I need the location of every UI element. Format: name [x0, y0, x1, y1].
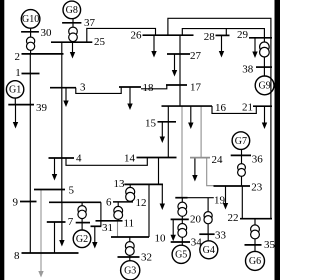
wire 23-22 [241, 186, 243, 219]
label bus 16 [215, 102, 227, 114]
load arrow bus 8 gray (line 5-8) [38, 190, 43, 278]
svg-text:12: 12 [136, 197, 147, 209]
svg-text:37: 37 [84, 17, 96, 29]
svg-text:G8: G8 [66, 5, 78, 16]
label bus 13 [114, 178, 126, 190]
label bus 7 [68, 216, 74, 228]
load arrow bus 20 [171, 219, 176, 241]
svg-text:17: 17 [190, 82, 202, 94]
wire chain 19-20-34-G5 [181, 198, 183, 246]
label bus 24 [212, 154, 224, 166]
bus 2 [22, 53, 64, 55]
transformer 12-11 [114, 206, 123, 219]
load arrow bus 29 [252, 38, 257, 58]
load arrow bus 13 [160, 184, 165, 210]
svg-text:5: 5 [69, 185, 75, 197]
load arrow bus 4 [52, 158, 57, 181]
label bus 30 [41, 27, 53, 39]
svg-text:21: 21 [242, 102, 253, 114]
bus 9 [20, 201, 37, 203]
bus 36 [231, 154, 251, 156]
bus 26 [143, 34, 194, 36]
generator G6 [246, 251, 265, 270]
generator G1 [6, 81, 23, 98]
label bus 8 [14, 250, 20, 262]
label bus 32 [141, 252, 152, 264]
label bus 5 [69, 185, 75, 197]
label bus 36 [252, 153, 263, 165]
transformer 29-38 [260, 42, 270, 57]
generator G7 [232, 132, 250, 150]
bus 7 left segment [47, 221, 66, 223]
svg-text:23: 23 [251, 182, 262, 194]
bus 11 [96, 220, 123, 222]
load arrow bus 15 [160, 122, 165, 143]
svg-text:9: 9 [13, 197, 19, 209]
svg-text:20: 20 [190, 214, 202, 226]
bus 15 [158, 121, 177, 123]
load arrow bus 25 [70, 42, 75, 58]
wire chain 12-11 [117, 202, 119, 221]
bus 21 [253, 105, 272, 107]
load arrow bus 26 [151, 35, 156, 57]
wire 14-13 [158, 158, 160, 185]
bus 38 [256, 66, 272, 68]
transformer 20-34 [178, 224, 187, 238]
transformer 36-23 [238, 164, 246, 177]
svg-text:G4: G4 [203, 245, 215, 256]
wire link 3-18 [76, 87, 121, 93]
wire right vertical 29-38-21-22 [270, 38, 272, 219]
bus 31 [91, 225, 102, 227]
wire link 18-17 [141, 85, 167, 89]
svg-text:34: 34 [191, 237, 203, 249]
svg-text:32: 32 [141, 252, 152, 264]
load arrow bus 24 [192, 158, 197, 182]
bus 6 [49, 201, 101, 203]
wire G10 to bus 30 and transformer chain to bus 2 [30, 28, 32, 54]
wire link 4-14 [66, 158, 147, 166]
label bus 29 [237, 29, 249, 41]
wire chain 19-33 [207, 198, 209, 235]
generator G5 [172, 245, 190, 263]
svg-text:26: 26 [131, 30, 143, 42]
label bus 20 [190, 214, 202, 226]
wire main vertical 25-2-3-4-5-6 [61, 42, 63, 202]
bus 4 [49, 157, 75, 159]
svg-text:27: 27 [190, 50, 202, 62]
load arrow bus 3 [63, 88, 68, 107]
label bus 4 [76, 153, 82, 165]
svg-text:7: 7 [68, 216, 74, 228]
load arrow bus 21 [262, 106, 267, 129]
bus 1 [22, 73, 40, 75]
bus 29 [249, 37, 272, 39]
bus 37 [62, 22, 81, 24]
wire 11-10 gray [117, 221, 119, 237]
transformer 37-25 [69, 27, 78, 42]
wire 6-7 [61, 202, 63, 222]
svg-text:22: 22 [228, 212, 239, 224]
bus 10 [111, 236, 149, 238]
label bus 28 [204, 31, 216, 43]
svg-text:15: 15 [145, 118, 157, 130]
svg-text:G2: G2 [76, 234, 88, 245]
bus 5 [34, 189, 65, 191]
label bus 27 [190, 50, 202, 62]
svg-text:G1: G1 [9, 85, 21, 96]
left edge black bar [0, 0, 4, 280]
svg-text:39: 39 [36, 102, 48, 114]
bus 18 [119, 86, 141, 88]
wire chain 22-35-G6 [254, 219, 256, 252]
wire 6-11-31 [100, 202, 102, 226]
svg-text:3: 3 [80, 82, 86, 94]
load arrow bus 39 [13, 105, 18, 129]
transformer 12-13 [126, 187, 135, 201]
wire vertical 2-1-39-9-8 [29, 54, 31, 253]
label bus 35 [264, 239, 276, 251]
label bus 33 [215, 229, 227, 241]
wire riser 16-24 gray [200, 106, 202, 158]
svg-text:13: 13 [114, 178, 126, 190]
label bus 38 [242, 64, 254, 76]
bus 24 gray [190, 157, 210, 159]
load arrow bus 7 [59, 222, 64, 247]
transformer 19-20 [178, 202, 187, 216]
right edge black bar [275, 0, 281, 280]
svg-text:1: 1 [15, 67, 20, 79]
label bus 9 [13, 197, 19, 209]
bus 30 [21, 31, 39, 33]
svg-text:18: 18 [143, 82, 155, 94]
svg-text:24: 24 [212, 154, 224, 166]
wire chain G7-36-23 [241, 149, 243, 186]
wire G8 to bus 37 and transformer chain to bus 25 [72, 19, 74, 43]
bus 8 [22, 252, 79, 254]
label bus 22 [228, 212, 239, 224]
wire 7-8 [54, 222, 56, 253]
bus 16 [162, 105, 213, 107]
wire G4 stem [207, 234, 209, 241]
load arrow bus 16 [188, 106, 193, 129]
bus 39 [8, 104, 34, 106]
svg-text:29: 29 [237, 29, 249, 41]
bus 20 [171, 218, 189, 220]
generator G9 [255, 76, 274, 95]
wire line 25-26 [87, 28, 156, 42]
bus 14 [137, 157, 177, 159]
transformer 10-32 [125, 242, 134, 256]
wire line 26-28-29 horizontal [182, 29, 264, 38]
svg-text:6: 6 [106, 197, 112, 209]
label bus 21 [242, 102, 253, 114]
label bus 10 [155, 233, 167, 245]
svg-text:36: 36 [252, 153, 263, 165]
generator G4 [200, 241, 218, 259]
bus 34 [171, 241, 190, 243]
svg-text:G6: G6 [249, 256, 261, 267]
svg-text:19: 19 [214, 195, 226, 207]
bus 33 [199, 233, 214, 235]
svg-text:16: 16 [215, 102, 227, 114]
wire line 16-19 gray [181, 106, 183, 198]
svg-text:G5: G5 [175, 250, 187, 261]
svg-text:4: 4 [76, 153, 82, 165]
label bus 1 [15, 67, 20, 79]
label bus 3 [80, 82, 86, 94]
label bus 15 [145, 118, 157, 130]
wire 13-10 [148, 184, 150, 237]
transformer 19-33 [204, 212, 212, 224]
svg-text:10: 10 [155, 233, 167, 245]
bus 28 [216, 34, 230, 36]
svg-text:G9: G9 [258, 81, 270, 92]
bus 13 [124, 183, 163, 185]
label bus 39 [36, 102, 48, 114]
label bus 26 [131, 30, 143, 42]
load arrow bus 23 [223, 186, 228, 210]
svg-text:25: 25 [94, 36, 106, 48]
generator G3 [121, 261, 140, 280]
label bus 17 [190, 82, 202, 94]
wire drop to bus 28 [225, 29, 227, 36]
bus 35 [245, 244, 262, 246]
label bus 6 [106, 197, 112, 209]
bus 23 [214, 185, 251, 187]
label bus 34 [191, 237, 203, 249]
svg-text:35: 35 [264, 239, 276, 251]
wire line 26-29 [168, 18, 271, 38]
bus 12 [113, 201, 133, 203]
wire chain 10-32-G3 [129, 237, 131, 261]
wire link 16-21 [212, 106, 256, 113]
label bus 25 [94, 36, 106, 48]
svg-text:2: 2 [15, 51, 21, 63]
generator G10 [21, 10, 40, 29]
svg-text:33: 33 [215, 229, 227, 241]
wire bus 19 extension [188, 197, 214, 199]
svg-text:G10: G10 [22, 14, 39, 25]
bus 22 [240, 218, 272, 220]
svg-text:G7: G7 [235, 136, 247, 147]
svg-text:38: 38 [242, 64, 254, 76]
label bus 12 [136, 197, 147, 209]
wire G1 stem to bus 39 [14, 98, 16, 105]
wire chain 29-38-G9 [263, 38, 265, 76]
bus 7 right segment [76, 222, 90, 224]
label bus 11 [124, 218, 135, 230]
bus 3 [50, 87, 76, 89]
bus 25 [51, 41, 92, 43]
wire vertical 16-15-14 [167, 106, 169, 157]
svg-text:28: 28 [204, 31, 216, 43]
label bus 14 [124, 152, 136, 164]
bus 19 [175, 197, 187, 199]
wire vertical 26-27-17-16 [179, 35, 181, 106]
bus 32 [118, 256, 140, 258]
bus 27 [167, 53, 190, 55]
generator G2 [73, 230, 91, 248]
generator G8 [63, 1, 81, 19]
load arrow bus 28 [219, 35, 224, 57]
wire link 24-23 gray [207, 158, 215, 186]
svg-text:31: 31 [102, 222, 113, 234]
transformer 6-G2 [78, 206, 86, 219]
label bus 19 [214, 195, 226, 207]
load arrow bus 27 [172, 54, 177, 77]
bus 17 [166, 84, 187, 86]
label bus 31 [102, 222, 113, 234]
label bus 18 [143, 82, 155, 94]
svg-text:11: 11 [124, 218, 135, 230]
svg-text:G3: G3 [124, 266, 136, 277]
transformer 30-2 [27, 37, 35, 50]
wire chain 6-G2 [81, 202, 83, 230]
svg-text:14: 14 [124, 152, 136, 164]
wire chain 13-12 [129, 184, 131, 202]
svg-text:8: 8 [14, 250, 20, 262]
label bus 2 [15, 51, 21, 63]
load arrow bus 31 [92, 226, 97, 248]
label bus 23 [251, 182, 262, 194]
load arrow bus 18 [127, 87, 132, 110]
transformer 22-35 [251, 225, 260, 239]
svg-text:30: 30 [41, 27, 53, 39]
label bus 37 [84, 17, 96, 29]
